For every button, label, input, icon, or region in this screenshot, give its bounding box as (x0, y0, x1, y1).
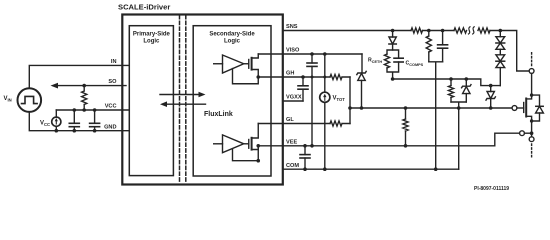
resistor R_GE (403, 106, 408, 146)
svg-text:IN: IN (111, 59, 117, 65)
op-amp buffer U1 top driver triangle (223, 55, 244, 73)
wire VISO net external (283, 53, 362, 55)
node source junction (530, 131, 534, 135)
wire kelvin to source (525, 132, 532, 134)
svg-text:RCETH: RCETH (368, 58, 382, 64)
capacitor C_442 (438, 31, 448, 62)
node C_VISO at VEE (310, 144, 314, 148)
wire input stub top driver (214, 63, 223, 65)
svg-text:GH: GH (286, 71, 294, 77)
svg-text:GND: GND (104, 124, 116, 130)
svg-text:Logic: Logic (224, 39, 241, 45)
node R428 top (427, 29, 431, 33)
transistor Q1 output mosfet top (249, 58, 252, 70)
svg-text:Primary-Side: Primary-Side (133, 32, 171, 38)
wire gate stub bottom driver (244, 143, 249, 145)
transistor Q2 output mosfet bottom (249, 138, 252, 150)
svg-text:VCC: VCC (40, 121, 50, 128)
IC outline SCALE-iDriver box (122, 15, 282, 185)
resistor R_GL gate off (330, 121, 350, 126)
secondary-side logic box (193, 26, 271, 176)
zener D_490 (486, 86, 495, 108)
wire SO net with arrow pointing left (51, 83, 127, 89)
wire dotted DC bus plus (531, 51, 533, 66)
wire GH external (283, 76, 330, 78)
transistor Q3 IGBT (524, 73, 532, 138)
wire feedback loop bottom driver (233, 146, 259, 161)
wire Q2 source to VEE (252, 146, 259, 150)
TVS zener pair bottom (496, 49, 505, 85)
svg-text:VGXX: VGXX (286, 95, 302, 101)
node source-diode junction (530, 119, 533, 122)
wire input stub bottom driver (214, 143, 223, 145)
capacitor C_VEE_COM (300, 146, 310, 169)
node VISO cap junction (310, 52, 314, 56)
wire GH internal (258, 76, 283, 78)
node VISO Vtot junction (323, 52, 327, 56)
node line A D466 (465, 77, 469, 81)
wire feedback loop top driver (233, 69, 259, 84)
wire GND net from Vin bottom to IC (29, 112, 129, 131)
node SNS TVS junction (499, 29, 503, 33)
zener D_466 (462, 79, 471, 102)
node gate terminal circle (512, 106, 517, 111)
node Q2 source VEE junction (256, 144, 260, 148)
node C442 top (441, 29, 445, 33)
node GH VGXX cap junction (301, 75, 305, 79)
isolation barrier dashed line 1 (179, 16, 181, 184)
svg-text:SNS: SNS (286, 24, 298, 30)
svg-text:PI-8097-011119: PI-8097-011119 (474, 186, 509, 192)
svg-text:COM: COM (286, 163, 299, 169)
svg-text:SCALE-iDriver: SCALE-iDriver (118, 3, 170, 12)
capacitor C_VISO (307, 54, 317, 146)
wire Q2 drain to GL (252, 124, 259, 139)
svg-text:GL: GL (286, 117, 294, 123)
node R_GE at VEE (404, 144, 408, 148)
node drain-diode junction (530, 93, 533, 96)
voltage source VIN circle (18, 88, 42, 112)
node Q1 source GH junction (256, 75, 260, 79)
node line A R451 (449, 77, 453, 81)
node C1 top (73, 108, 77, 112)
wire SNS net middle (423, 30, 455, 32)
fluxlink arrow left (160, 101, 206, 107)
svg-text:VIN: VIN (4, 96, 12, 103)
resistor R_SNS1 (411, 28, 423, 33)
voltage source VCC circle with up arrow (52, 110, 61, 131)
resistor R_GH gate on (330, 74, 350, 79)
node D490 at gate line (489, 106, 493, 110)
wire SNS to collector corner (490, 31, 529, 72)
resistor R_SNS2a (454, 28, 467, 33)
wire VISO internal (258, 53, 283, 55)
capacitor C_VGXX (298, 77, 308, 101)
svg-text:Secondary-Side: Secondary-Side (209, 32, 255, 38)
capacitor C_COMPS plates (394, 58, 403, 62)
node zener at gate line (360, 106, 364, 110)
resistor R_428 to COM (426, 31, 431, 62)
capacitor C2 on VCC (90, 110, 100, 131)
node line A zener 490 (489, 84, 493, 88)
resistor R_SNS2b (478, 28, 490, 33)
node VCC source at GND (55, 129, 59, 133)
wire Q1 source to GH node (252, 70, 259, 78)
fluxlink arrow right (160, 92, 206, 98)
node emitter kelvin terminal circle (520, 131, 525, 136)
node resistor-VCC junction (82, 108, 86, 112)
node gate node start (348, 106, 352, 110)
resistor on SO pull-up to VCC (82, 86, 87, 110)
node feedback corner bottom (256, 159, 260, 163)
svg-text:SO: SO (108, 79, 117, 85)
resistor R_451 (448, 79, 453, 102)
svg-text:FluxLink: FluxLink (204, 111, 233, 118)
node C1 bottom (73, 129, 77, 133)
wire VCC net (56, 109, 129, 111)
diode D_fw freewheel (532, 95, 544, 121)
node V_TOT at COM (323, 167, 327, 171)
node VEE cap305 (303, 144, 307, 148)
node SO-resistor junction (82, 84, 86, 88)
wire VGXX pin stub (283, 100, 303, 102)
wire gate stub top driver (244, 63, 249, 65)
pulse symbol inside VIN (22, 96, 38, 103)
node join at gate line (457, 106, 461, 110)
wire VEE external (283, 133, 520, 146)
wire dotted DC bus minus (531, 144, 533, 159)
parallel network R_CETH and C_COMPS (387, 50, 399, 79)
op-amp buffer U2 bottom driver triangle (223, 135, 244, 153)
wire SNS net (283, 30, 411, 32)
capacitor C1 on VCC (69, 110, 79, 131)
voltage source V_TOT (320, 54, 330, 169)
wire gate node line B (350, 107, 512, 109)
svg-text:CCOMPS: CCOMPS (406, 61, 424, 67)
wire Q1 drain to VISO (252, 54, 259, 58)
primary-side logic box (129, 26, 173, 176)
node RC join at COM (434, 167, 438, 171)
svg-text:VCC: VCC (105, 104, 117, 110)
wire GL internal (258, 123, 283, 125)
TVS zener pair top (496, 31, 505, 50)
wire GL external (283, 123, 330, 125)
node collector terminal circle (529, 69, 534, 74)
resistor R_CETH (384, 54, 389, 68)
svg-text:VISO: VISO (286, 48, 300, 54)
node source terminal circle (529, 137, 534, 142)
node SNS diode junction (391, 29, 395, 33)
diode D_sns series (389, 31, 396, 51)
node GH crossing blob left (311, 76, 314, 79)
wire IN net from Vin to IC (29, 65, 129, 88)
isolation barrier dashed line 2 (185, 16, 187, 184)
wire RC join down to COM (429, 62, 443, 169)
node cap at COM (303, 167, 307, 171)
node line A to RC stub (391, 77, 395, 81)
zener D_viso gate clamp (357, 54, 366, 108)
node GH crossing blob right (323, 76, 326, 79)
svg-text:Logic: Logic (143, 39, 160, 45)
node C2 bottom (93, 129, 97, 133)
svg-text:VTOT: VTOT (333, 96, 346, 103)
wire COM external (283, 168, 459, 170)
wire joining gate resistors (349, 77, 351, 124)
node C2 top (93, 108, 97, 112)
wire break squiggle (469, 27, 475, 34)
wire line A clamp rail (393, 79, 501, 86)
svg-text:VEE: VEE (286, 140, 297, 146)
wire R451 D466 join to COM (451, 102, 466, 169)
wire VEE internal (258, 145, 283, 147)
wire gate circle to IGBT (517, 107, 524, 109)
